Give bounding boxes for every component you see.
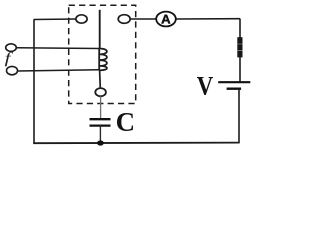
wire right vertical lower <box>238 89 240 144</box>
wire capacitor to bottom wire <box>99 126 101 144</box>
inductor L (coil with loops bulging right) <box>99 49 107 71</box>
fuse F (dark filled element on right wire) <box>237 37 242 57</box>
label V (voltmeter) <box>197 77 213 95</box>
terminal (open circle) top-left inside box <box>76 15 87 23</box>
label f (supply squiggle between input terminals) <box>5 52 13 66</box>
junction dot on bottom wire <box>97 140 104 145</box>
wire top from ammeter to right corner <box>176 18 241 20</box>
wire coil bottom to circle terminal <box>99 70 102 88</box>
label C (capacitor) <box>117 113 133 131</box>
wire hanging vertical from box top to coil <box>99 10 101 49</box>
wire upper-left terminal to coil top <box>16 47 99 50</box>
wire right vertical between fuse and battery <box>239 57 241 81</box>
capacitor C top plate <box>90 118 111 120</box>
wire bottom horizontal <box>33 142 239 145</box>
wire top from box to ammeter <box>130 18 157 20</box>
wire from bottom terminal down to capacitor (lighter) <box>100 96 102 118</box>
ammeter A <box>156 12 176 27</box>
wire left vertical <box>33 20 35 144</box>
terminal (open circle) top-right inside box <box>118 15 130 24</box>
battery short plate <box>227 87 242 89</box>
battery long plate <box>218 81 250 83</box>
terminal (open circle) bottom inside box <box>95 88 106 96</box>
wire lower-left terminal to coil bottom <box>18 70 100 71</box>
wire right vertical upper <box>239 19 241 40</box>
input terminal upper-left (open circle) <box>6 44 17 52</box>
input terminal lower-left (open circle) <box>7 66 18 74</box>
dashed enclosure box <box>69 5 136 103</box>
wire top-left horizontal <box>34 18 77 21</box>
capacitor C bottom plate <box>90 124 111 126</box>
